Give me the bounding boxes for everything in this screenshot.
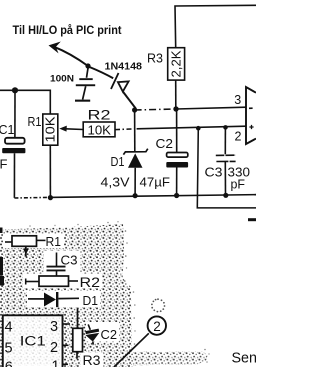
svg-text:R3: R3 <box>147 51 163 66</box>
svg-text:IC1: IC1 <box>20 334 46 349</box>
PCB stipple background <box>0 224 208 367</box>
svg-text:4: 4 <box>5 320 13 336</box>
pcb resistor R3 <box>73 309 83 359</box>
label 1N4148 <box>105 62 143 73</box>
label D1 <box>111 155 125 169</box>
stipple knockouts <box>3 234 119 367</box>
svg-text:2,2K: 2,2K <box>170 50 184 78</box>
svg-text:2: 2 <box>50 340 58 356</box>
svg-text:4,3V: 4,3V <box>101 175 131 189</box>
label 4,3V <box>101 175 131 189</box>
svg-text:F: F <box>0 157 8 172</box>
label 47uF <box>140 176 171 190</box>
op-amp U1 <box>246 87 256 144</box>
node junction C3 bottom <box>223 193 228 198</box>
svg-text:2: 2 <box>153 319 161 334</box>
label pF <box>231 177 246 191</box>
node junction mid (D1 top) <box>132 107 137 112</box>
node junction D1 bottom <box>133 193 138 198</box>
node junction C3 top <box>223 125 228 130</box>
label F <box>0 157 8 172</box>
capacitor C3 <box>216 127 237 195</box>
label pin 2 <box>235 130 242 144</box>
node junction under R3 <box>173 106 178 111</box>
svg-text:10K: 10K <box>88 123 112 137</box>
svg-text:D1: D1 <box>83 293 99 308</box>
label R1 <box>28 114 42 129</box>
capacitor C2 electrolytic <box>166 109 188 196</box>
svg-text:6: 6 <box>5 360 13 367</box>
label R2 <box>88 107 111 122</box>
wire node to R3 bottom (dash-dot) <box>135 109 176 110</box>
svg-text:10K: 10K <box>44 116 58 143</box>
capacitor C1 <box>2 93 25 198</box>
svg-text:100N: 100N <box>50 74 74 85</box>
zener diode D1 <box>123 110 147 196</box>
pcb label C3 <box>61 253 78 268</box>
pcb capacitor C2 <box>85 324 99 344</box>
wire R2 to op-amp pin 2 <box>115 126 246 129</box>
capacitor 100N <box>75 68 95 102</box>
label pin 3 <box>234 93 241 107</box>
node junction C2 bottom <box>174 193 179 198</box>
svg-text:1N4148: 1N4148 <box>105 62 143 73</box>
resistor R3 <box>168 48 185 109</box>
node junction feedback <box>196 126 201 131</box>
pcb label R3 <box>83 353 101 367</box>
svg-text:pF: pF <box>231 177 246 191</box>
label C2 <box>156 137 174 151</box>
pcb resistor R1 <box>5 236 46 257</box>
svg-text:C3: C3 <box>205 165 223 179</box>
node junction C1 top <box>12 87 18 93</box>
svg-text:C3: C3 <box>61 253 78 268</box>
svg-text:Sen: Sen <box>232 351 257 367</box>
label: Til HI/LO pa PIC print <box>13 25 122 37</box>
svg-text:5: 5 <box>5 341 13 357</box>
svg-text:R3: R3 <box>83 353 101 367</box>
label C1 <box>0 122 15 137</box>
pcb IC1 <box>3 315 70 367</box>
wire stub right edge <box>248 218 256 221</box>
wiper arrow into R1 <box>59 126 83 132</box>
wire left top rail <box>0 90 50 114</box>
pcb diode D1 <box>28 292 79 307</box>
node junction top <box>85 63 90 68</box>
wire feedback from output <box>197 128 256 208</box>
svg-text:Til HI/LO på PIC print: Til HI/LO på PIC print <box>13 25 122 37</box>
arrow to PIC print <box>49 42 89 67</box>
pcb capacitor C3 <box>47 253 66 277</box>
svg-text:R1: R1 <box>46 234 62 249</box>
svg-text:C1: C1 <box>0 122 15 137</box>
svg-text:C2: C2 <box>156 137 174 151</box>
callout circle 2 <box>114 316 166 367</box>
label C3 <box>205 165 223 179</box>
pcb label D1 <box>83 293 99 308</box>
svg-text:C2: C2 <box>101 327 118 342</box>
svg-text:D1: D1 <box>111 155 125 169</box>
svg-text:47µF: 47µF <box>140 176 171 190</box>
svg-text:3: 3 <box>234 93 241 107</box>
svg-text:R2: R2 <box>88 107 111 122</box>
diode 1N4148 <box>90 67 137 109</box>
pcb resistor R2 <box>26 276 79 286</box>
pcb label R2 <box>80 275 101 290</box>
label Sen <box>232 351 258 367</box>
pcb label R1 <box>46 234 62 249</box>
svg-text:2: 2 <box>235 130 242 144</box>
svg-text:R1: R1 <box>28 114 42 129</box>
svg-text:R2: R2 <box>80 275 101 290</box>
label R3 <box>147 51 163 66</box>
left edge marks <box>0 228 4 286</box>
node junction R1 bottom <box>48 195 53 200</box>
label 100N <box>50 74 74 85</box>
wire ground rail <box>14 195 256 198</box>
svg-text:1: 1 <box>52 359 60 367</box>
wire to op-amp pin 3 <box>176 107 246 109</box>
resistor R2 <box>83 122 115 137</box>
stipple ragged edge dots <box>29 221 209 363</box>
dotted pad ring <box>151 298 165 312</box>
svg-text:3: 3 <box>50 319 58 335</box>
wire top rail <box>175 5 256 47</box>
label 330 <box>228 165 251 179</box>
pcb label C2 <box>101 327 118 342</box>
resistor R1 (pot) <box>43 114 58 198</box>
